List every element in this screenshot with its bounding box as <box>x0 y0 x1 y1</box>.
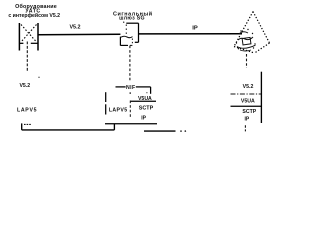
svg-text:LAPV5: LAPV5 <box>109 107 128 113</box>
svg-text:с интерфейсом V5.2: с интерфейсом V5.2 <box>8 12 60 19</box>
svg-text:V5.2: V5.2 <box>243 84 254 90</box>
svg-text:IP: IP <box>141 115 146 121</box>
svg-text:шлюз SG: шлюз SG <box>119 16 145 22</box>
svg-text:SCTP: SCTP <box>242 109 256 115</box>
svg-text:IP: IP <box>245 116 250 122</box>
svg-text:IP: IP <box>192 25 198 31</box>
svg-text:SCTP: SCTP <box>139 106 154 112</box>
svg-text:NIF: NIF <box>126 85 136 91</box>
svg-text:V5.2: V5.2 <box>19 83 30 89</box>
svg-text:V5.2: V5.2 <box>69 25 80 31</box>
svg-text:LAPV5: LAPV5 <box>17 107 37 113</box>
svg-text:V5UA: V5UA <box>241 99 255 105</box>
